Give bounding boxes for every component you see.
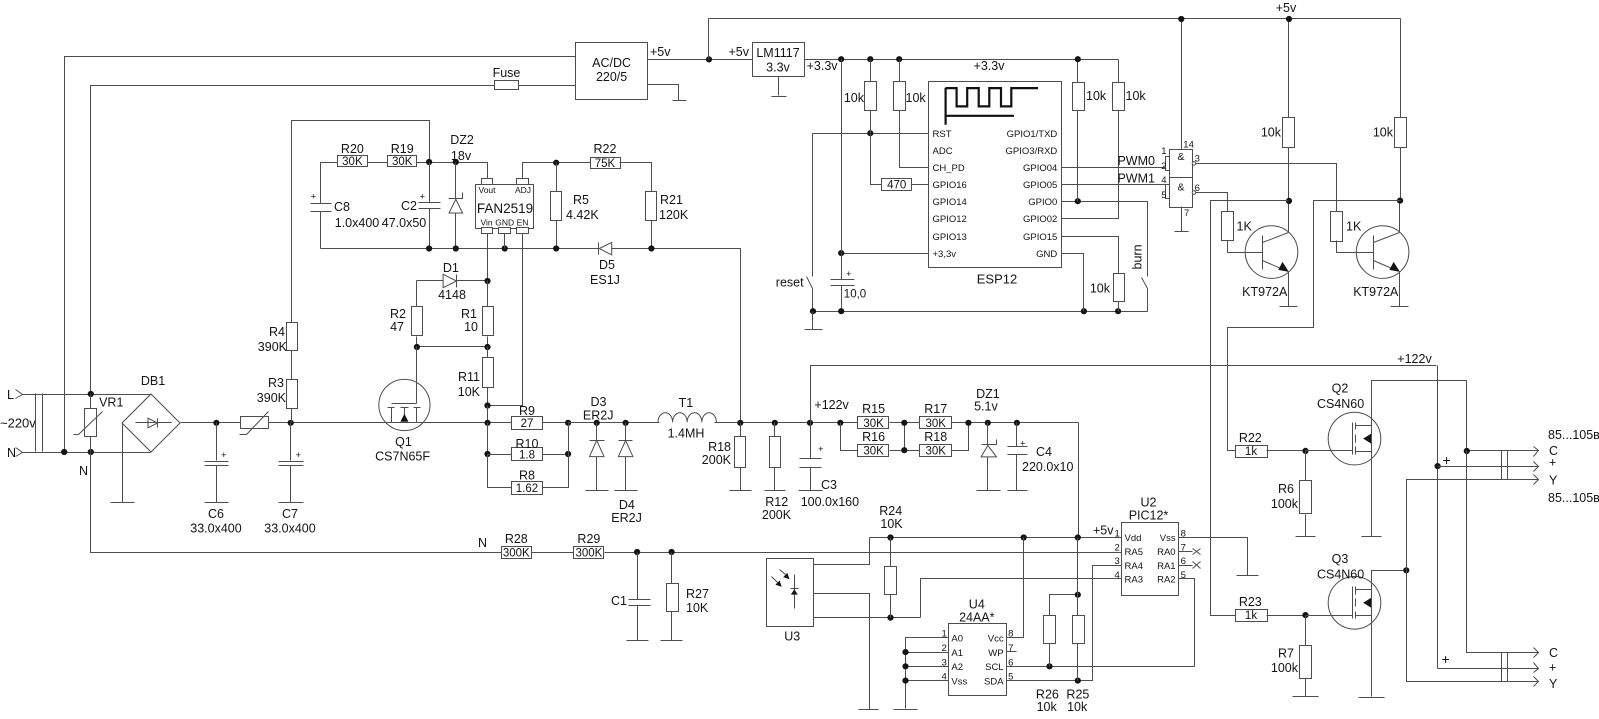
svg-text:27: 27 xyxy=(521,418,534,430)
node +3,3v cap xyxy=(838,250,844,256)
svg-text:30K: 30K xyxy=(863,446,884,458)
node RST pullup xyxy=(867,130,873,136)
wire N xyxy=(23,452,151,454)
svg-text:GPIO3/RXD: GPIO3/RXD xyxy=(1006,146,1058,157)
resistor R22 1k xyxy=(1236,431,1306,458)
svg-text:7: 7 xyxy=(1184,208,1189,219)
svg-text:VR1: VR1 xyxy=(99,396,123,410)
gate pin7 ground xyxy=(1175,207,1189,232)
svg-text:R18: R18 xyxy=(924,430,947,444)
svg-text:T1: T1 xyxy=(679,396,694,410)
svg-text:A2: A2 xyxy=(951,662,963,673)
resistor R29 xyxy=(574,532,604,560)
svg-text:ADC: ADC xyxy=(933,146,953,157)
node mid tie top xyxy=(901,420,907,426)
mosfet Q3 CS4N60 xyxy=(1306,552,1381,629)
svg-text:470: 470 xyxy=(887,180,906,192)
svg-text:burn: burn xyxy=(1131,244,1145,269)
svg-text:R22: R22 xyxy=(594,142,617,156)
svg-text:10k: 10k xyxy=(1126,89,1147,103)
fuse xyxy=(493,66,576,90)
svg-text:10K: 10K xyxy=(880,517,903,531)
svg-text:ER2J: ER2J xyxy=(583,409,614,423)
terminal L xyxy=(7,388,23,402)
wire RST line xyxy=(813,133,929,135)
resistor R12 xyxy=(762,423,792,523)
resistor R23 1k xyxy=(1236,595,1306,622)
gate input stubs 1-2 xyxy=(1166,157,1170,171)
svg-text:R22: R22 xyxy=(1239,431,1262,445)
svg-text:10K: 10K xyxy=(458,385,481,399)
svg-text:RA1: RA1 xyxy=(1157,561,1175,572)
waveform icon xyxy=(946,88,1038,125)
wire +122v riser xyxy=(811,366,1437,423)
resistor 10k GPIO15 xyxy=(1090,274,1125,312)
svg-text:30K: 30K xyxy=(925,446,946,458)
wire Q3 source ground xyxy=(1359,616,1385,698)
svg-text:ADJ: ADJ xyxy=(515,185,531,195)
svg-text:390K: 390K xyxy=(258,340,288,354)
node bus R9 left xyxy=(484,420,490,426)
svg-text:Vss: Vss xyxy=(1160,533,1176,544)
capacitor C2 xyxy=(382,163,441,249)
svg-text:GPIO13: GPIO13 xyxy=(933,232,967,243)
node bus D3 xyxy=(594,420,600,426)
svg-text:C: C xyxy=(1549,646,1558,660)
node bus R12 xyxy=(772,420,778,426)
transistor KT972A #1 xyxy=(1242,226,1298,299)
wire +3.3v rail xyxy=(805,59,1119,61)
svg-text:33.0x400: 33.0x400 xyxy=(264,522,315,536)
gate output 3 bubble xyxy=(1192,162,1196,166)
svg-text:24AA*: 24AA* xyxy=(959,611,995,625)
svg-text:1.4MH: 1.4MH xyxy=(668,426,705,440)
capacitor 10,0 xyxy=(831,254,867,312)
svg-text:+: + xyxy=(846,269,852,280)
pin WP stub xyxy=(1007,651,1017,653)
svg-text:PIC12*: PIC12* xyxy=(1129,509,1169,523)
svg-text:1K: 1K xyxy=(1237,220,1253,234)
terminal N xyxy=(7,446,23,460)
svg-text:Vdd: Vdd xyxy=(1125,533,1142,544)
svg-text:85...105в: 85...105в xyxy=(1548,428,1599,442)
svg-text:R2: R2 xyxy=(390,307,406,321)
svg-text:+5v: +5v xyxy=(650,45,671,59)
node rail 10k3 xyxy=(1075,56,1081,62)
svg-text:A0: A0 xyxy=(951,633,963,644)
svg-text:EN: EN xyxy=(517,218,529,228)
node rail +3,3v riser xyxy=(838,56,844,62)
wire +3,3v riser xyxy=(841,60,843,254)
wire Q2 source ground xyxy=(1362,452,1382,537)
svg-text:10k: 10k xyxy=(844,91,865,105)
wire U3 pin1 to +5v xyxy=(814,538,870,565)
node rail GNDpin xyxy=(1081,308,1087,314)
svg-text:D1: D1 xyxy=(443,261,459,275)
svg-text:GPIO12: GPIO12 xyxy=(933,214,967,225)
svg-text:1K: 1K xyxy=(1346,220,1362,234)
svg-text:N: N xyxy=(79,464,88,478)
eeprom U4 24AA xyxy=(942,598,1014,696)
capacitor C3 xyxy=(799,423,860,510)
svg-text:D5: D5 xyxy=(599,258,615,272)
switch burn xyxy=(1131,244,1148,311)
node A1 xyxy=(902,649,908,655)
svg-text:RA0: RA0 xyxy=(1157,547,1175,558)
node +5v 10k4 xyxy=(1286,16,1292,22)
ground AC/DC xyxy=(648,85,687,101)
svg-text:Q3: Q3 xyxy=(1332,552,1349,566)
svg-text:reset: reset xyxy=(776,276,804,290)
svg-text:120K: 120K xyxy=(659,208,689,222)
svg-text:R8: R8 xyxy=(519,469,535,483)
node R10 right xyxy=(565,451,571,457)
svg-text:R9: R9 xyxy=(519,404,535,418)
wire GPIO0 line xyxy=(1062,202,1148,277)
wire R16-R18b xyxy=(890,450,920,452)
wire R22 to R21 xyxy=(620,163,652,192)
svg-text:N: N xyxy=(7,446,16,460)
wire output6 to 1K1 xyxy=(1196,193,1228,212)
resistor R16 xyxy=(858,430,889,458)
svg-text:85...105в: 85...105в xyxy=(1548,491,1599,505)
svg-text:DZ2: DZ2 xyxy=(450,133,474,147)
svg-text:C1: C1 xyxy=(611,594,627,608)
ground DB1 xyxy=(111,423,135,503)
connector upper lamp xyxy=(1502,451,1508,480)
wire R3 to bus xyxy=(291,409,293,423)
svg-text:C6: C6 xyxy=(208,507,224,521)
resistor R18 200K xyxy=(702,423,752,491)
wire KT972A #1 collector xyxy=(1288,201,1290,233)
wire GND pin to rail xyxy=(1062,254,1084,312)
svg-text:10: 10 xyxy=(464,320,478,334)
wire N up-left to AC/DC top input xyxy=(65,57,576,453)
svg-text:U3: U3 xyxy=(784,630,800,644)
svg-text:R6: R6 xyxy=(1278,482,1294,496)
resistor R10 xyxy=(488,437,569,461)
wire Q1 gate drop xyxy=(416,347,418,404)
svg-text:10k: 10k xyxy=(1086,89,1107,103)
svg-text:GPIO0: GPIO0 xyxy=(1028,197,1057,208)
svg-text:100.0x160: 100.0x160 xyxy=(801,495,859,509)
node D1-R1-Vin xyxy=(484,278,490,284)
wire output C upper xyxy=(1467,450,1539,452)
svg-text:ESP12: ESP12 xyxy=(977,272,1017,287)
wire main bus DB1 to Q1 xyxy=(181,422,379,424)
wire C8 to R20 xyxy=(321,163,338,204)
svg-text:R17: R17 xyxy=(924,402,947,416)
resistor R25 xyxy=(1066,538,1089,715)
svg-text:GPIO1/TXD: GPIO1/TXD xyxy=(1007,129,1058,140)
svg-text:47: 47 xyxy=(390,320,404,334)
node GPIO0 pullup xyxy=(1075,198,1081,204)
svg-text:Vcc: Vcc xyxy=(988,633,1004,644)
svg-text:+3.3v: +3.3v xyxy=(807,59,839,73)
svg-text:220/5: 220/5 xyxy=(596,70,627,84)
capacitor C6 xyxy=(190,423,241,536)
ground KT972A #2 xyxy=(1391,306,1409,308)
regulator FAN2519 xyxy=(476,179,534,234)
wire RA3 link xyxy=(921,579,1122,618)
node gate-R1-R11 xyxy=(484,344,490,350)
wire KT972A #2 collector xyxy=(1399,201,1401,233)
svg-text:U2: U2 xyxy=(1141,496,1157,510)
wire R16 branch xyxy=(841,423,858,451)
svg-text:C8: C8 xyxy=(334,200,350,214)
node +5v riser xyxy=(706,56,712,62)
wire R2-R1 gate node xyxy=(417,346,488,348)
node R24 bottom xyxy=(887,615,893,621)
svg-text:D3: D3 xyxy=(591,395,607,409)
resistor 1K (base of KT972A #2) xyxy=(1331,212,1374,253)
zener DZ2 xyxy=(449,133,474,249)
wire N line to RA5 xyxy=(605,552,1122,554)
svg-text:Vin: Vin xyxy=(481,218,493,228)
converter AC/DC xyxy=(576,43,648,100)
node KT972A #2 collector xyxy=(1397,198,1403,204)
resistor R28 xyxy=(502,532,532,560)
wire SCL line xyxy=(1007,666,1195,668)
varistor VR1 xyxy=(74,395,124,453)
wire output plus lower xyxy=(1438,668,1539,670)
svg-text:R27: R27 xyxy=(686,587,709,601)
svg-text:1: 1 xyxy=(1115,529,1120,540)
wire bus T1 to R15 xyxy=(715,422,858,424)
node rail 10k2 xyxy=(896,56,902,62)
svg-text:390K: 390K xyxy=(257,391,287,405)
resistor R2 xyxy=(390,281,422,347)
wire +5v riser to top rail xyxy=(708,19,710,60)
svg-text:5.1v: 5.1v xyxy=(974,400,998,414)
wire R15-R17 xyxy=(890,422,920,424)
svg-text:30K: 30K xyxy=(392,156,413,168)
wire KT972A #2 emitter xyxy=(1399,272,1401,307)
svg-text:4.42K: 4.42K xyxy=(566,208,599,222)
resistor R15 xyxy=(858,402,889,430)
wire R9 right to node xyxy=(543,422,569,424)
svg-text:R24: R24 xyxy=(879,504,902,518)
svg-text:10K: 10K xyxy=(686,601,709,615)
resistor R4 xyxy=(258,323,298,355)
node bus C6 xyxy=(213,420,219,426)
wire output3 to 1K2 xyxy=(1196,164,1337,212)
svg-text:&: & xyxy=(1177,151,1184,163)
wire +5v Vdd line xyxy=(870,537,1122,539)
node Vdd R24 xyxy=(887,534,893,540)
svg-text:14: 14 xyxy=(1183,140,1194,151)
svg-text:AC/DC: AC/DC xyxy=(592,56,631,70)
wire U3 pin2 to ground xyxy=(814,594,870,710)
svg-text:30K: 30K xyxy=(925,418,946,430)
svg-text:+3,3v: +3,3v xyxy=(933,249,957,260)
svg-text:3.3v: 3.3v xyxy=(766,61,790,75)
svg-text:10k: 10k xyxy=(1037,700,1058,714)
arrow Y lower xyxy=(1534,677,1539,687)
node N C1 xyxy=(634,549,640,555)
svg-text:ES1J: ES1J xyxy=(590,273,620,287)
node bus R18a xyxy=(737,420,743,426)
node A2 xyxy=(902,663,908,669)
bridge DB1 xyxy=(122,374,180,452)
wire PWM1 xyxy=(1062,184,1166,186)
resistor R7 xyxy=(1271,616,1319,697)
wire U4 address tie xyxy=(906,638,949,709)
wire R19 to Vout rail xyxy=(417,163,488,179)
input connector xyxy=(36,394,43,452)
svg-text:R20: R20 xyxy=(341,142,364,156)
node Vss U4 xyxy=(902,678,908,684)
resistor 10k (collector pullup KT972A #2) xyxy=(1373,19,1407,201)
wire RA2 to SCL xyxy=(1179,579,1195,667)
wire R18b up to bus xyxy=(952,423,969,451)
svg-text:D4: D4 xyxy=(619,498,635,512)
wire GPIO02 to pullup xyxy=(1062,111,1119,219)
wire Q3 drain to lower Y xyxy=(1407,571,1539,682)
resistor 10k RST xyxy=(844,60,877,134)
arrow C lower xyxy=(1534,648,1539,658)
wire KT972A #1 emitter xyxy=(1288,272,1290,307)
svg-text:1k: 1k xyxy=(1245,446,1257,458)
svg-text:CS7N65F: CS7N65F xyxy=(375,450,430,464)
svg-text:10k: 10k xyxy=(1090,282,1111,296)
svg-text:5: 5 xyxy=(1181,570,1186,581)
node rail 10k1 xyxy=(867,56,873,62)
svg-text:RA2: RA2 xyxy=(1157,575,1175,586)
node C upper xyxy=(1464,448,1470,454)
svg-text:10,0: 10,0 xyxy=(844,289,866,301)
svg-text:R16: R16 xyxy=(862,430,885,444)
ground U3 pin2 xyxy=(859,709,879,711)
svg-text:LM1117: LM1117 xyxy=(756,46,799,60)
diode D4 xyxy=(611,423,642,526)
arrow plus lower xyxy=(1534,663,1539,673)
node bus R16 branch xyxy=(837,420,843,426)
transistor Q1 CS7N65F xyxy=(375,378,430,464)
svg-text:4: 4 xyxy=(1115,570,1120,581)
svg-text:2: 2 xyxy=(1161,161,1166,172)
svg-text:GPIO02: GPIO02 xyxy=(1023,214,1057,225)
resistor R9 xyxy=(512,404,543,430)
node rail C2 bottom xyxy=(426,245,432,251)
node L-VR1 xyxy=(88,391,94,397)
capacitor C8 xyxy=(311,192,380,249)
svg-text:300K: 300K xyxy=(575,548,602,560)
wire R10 branch left xyxy=(487,423,489,455)
wire +5v AC/DC to LM1117 xyxy=(648,59,753,61)
resistor R19 xyxy=(388,142,417,168)
svg-text:GPIO14: GPIO14 xyxy=(933,197,967,208)
resistor R1 xyxy=(461,281,493,347)
svg-text:4: 4 xyxy=(1161,175,1166,186)
svg-text:5: 5 xyxy=(1161,190,1166,201)
svg-text:R11: R11 xyxy=(458,370,480,384)
node rail cap xyxy=(838,308,844,314)
node R10 left xyxy=(484,451,490,457)
wire GND pin down xyxy=(504,234,506,249)
svg-text:Q2: Q2 xyxy=(1332,382,1349,396)
svg-text:RA3: RA3 xyxy=(1125,575,1143,586)
svg-text:Y: Y xyxy=(1549,474,1558,488)
svg-text:Q1: Q1 xyxy=(395,435,412,449)
svg-text:CS4N60: CS4N60 xyxy=(1317,568,1364,582)
svg-text:GPIO05: GPIO05 xyxy=(1023,180,1057,191)
svg-text:~220v: ~220v xyxy=(0,416,36,431)
svg-text:4148: 4148 xyxy=(438,288,466,302)
capacitor C4 xyxy=(1008,423,1074,491)
node bus D4 xyxy=(623,420,629,426)
mcu U2 PIC12 xyxy=(1115,496,1186,596)
svg-text:KT972A: KT972A xyxy=(1242,285,1288,299)
wire Q2 drain to C line xyxy=(1372,381,1467,451)
node rail DZ2 xyxy=(453,159,459,165)
svg-text:+: + xyxy=(1442,651,1450,667)
resistor R22 75K xyxy=(591,142,621,170)
ground U4 xyxy=(894,709,918,711)
wire output Y upper xyxy=(1407,480,1539,571)
svg-text:10k: 10k xyxy=(1373,126,1394,140)
svg-text:200K: 200K xyxy=(762,508,792,522)
svg-text:PWM1: PWM1 xyxy=(1117,172,1155,186)
resistor R3 xyxy=(257,376,298,409)
wire bus R17 to corner xyxy=(952,422,1079,424)
arrow plus upper xyxy=(1534,462,1539,472)
wire KT972A #1 collector to R23 xyxy=(1211,201,1289,616)
svg-text:30K: 30K xyxy=(863,418,884,430)
ground Vss xyxy=(1237,575,1259,577)
svg-text:RA4: RA4 xyxy=(1125,561,1143,572)
capacitor C1 xyxy=(611,553,650,641)
svg-text:75K: 75K xyxy=(595,158,616,170)
wire N down to bottom N line xyxy=(91,453,502,553)
svg-text:SCL: SCL xyxy=(985,662,1003,673)
optocoupler U3 xyxy=(767,559,814,644)
node N-x64 xyxy=(61,449,67,455)
svg-text:R29: R29 xyxy=(577,532,600,546)
wire Q3 drain to Y node xyxy=(1372,571,1407,590)
svg-text:R18: R18 xyxy=(708,440,731,454)
svg-text:R4: R4 xyxy=(269,325,285,339)
svg-text:R7: R7 xyxy=(1278,647,1294,661)
wire bus through Q1 region xyxy=(379,422,512,424)
wire SDA line xyxy=(1007,566,1122,681)
resistor 10k CH_PD xyxy=(894,60,929,168)
svg-text:1k: 1k xyxy=(1245,610,1257,622)
wire +5v top rail xyxy=(709,18,1401,20)
svg-text:R19: R19 xyxy=(391,142,414,156)
svg-text:+: + xyxy=(1020,439,1026,450)
svg-text:GPIO16: GPIO16 xyxy=(933,180,967,191)
svg-text:+: + xyxy=(311,192,317,203)
pin RA1 nc xyxy=(1179,562,1201,569)
wire R28-R29 xyxy=(532,552,574,554)
resistor R6 xyxy=(1271,451,1316,537)
node mid tie bottom xyxy=(901,447,907,453)
svg-text:R3: R3 xyxy=(268,376,284,390)
wire L xyxy=(23,394,151,396)
svg-text:C3: C3 xyxy=(821,478,837,492)
wire R4-R3 xyxy=(291,351,293,380)
svg-text:R12: R12 xyxy=(765,495,788,509)
resistor R26 xyxy=(1036,595,1078,715)
regulator LM1117 xyxy=(728,43,804,77)
svg-text:FAN2519: FAN2519 xyxy=(477,201,533,216)
resistor R21 xyxy=(646,192,689,249)
node bus +122v xyxy=(807,420,813,426)
wire mid tie xyxy=(904,423,906,451)
node bus R18b xyxy=(965,420,971,426)
svg-text:A1: A1 xyxy=(951,648,963,659)
